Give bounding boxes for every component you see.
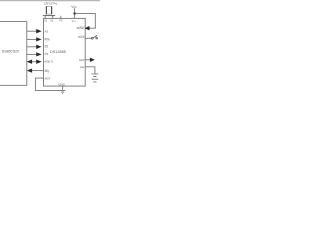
svg-text:SQW: SQW	[79, 60, 85, 62]
svg-text:R/W: R/W	[45, 37, 51, 41]
svg-text:RCLR: RCLR	[78, 37, 85, 39]
svg-text:VBAT: VBAT	[80, 66, 85, 69]
svg-text:DS12885: DS12885	[50, 50, 66, 54]
svg-text:AS: AS	[45, 30, 49, 34]
svg-text:DS80C520: DS80C520	[2, 49, 19, 53]
svg-text:DS: DS	[45, 45, 49, 49]
svg-text:RESET: RESET	[77, 28, 85, 30]
svg-text:PS: PS	[59, 21, 63, 23]
svg-text:CRYSTAL: CRYSTAL	[44, 1, 58, 5]
svg-text:CS: CS	[45, 52, 49, 56]
svg-text:MOT: MOT	[45, 76, 51, 80]
svg-text:IRQ: IRQ	[45, 69, 50, 73]
svg-text:X1: X1	[44, 18, 48, 22]
svg-text:VCC: VCC	[71, 5, 77, 9]
svg-text:VCC: VCC	[72, 19, 77, 23]
svg-text:X2: X2	[50, 18, 54, 22]
svg-text:AD(0-7): AD(0-7)	[44, 60, 53, 64]
svg-text:GND: GND	[58, 82, 64, 86]
